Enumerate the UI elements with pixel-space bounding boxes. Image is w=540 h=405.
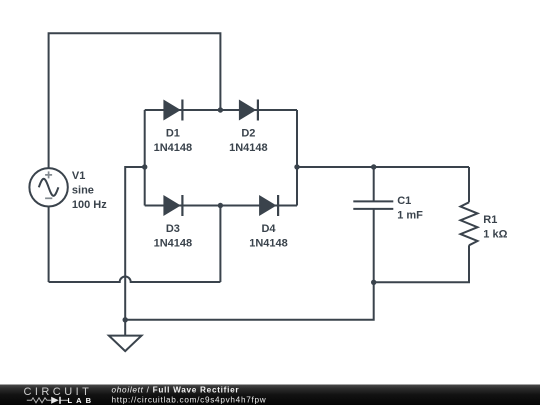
voltage source V1 — [29, 168, 67, 206]
svg-text:1N4148: 1N4148 — [154, 142, 193, 154]
wire bottom rail with hop over ground wire — [49, 277, 221, 283]
svg-text:C1: C1 — [397, 195, 411, 207]
wire V1 top to bridge top-mid — [49, 33, 221, 169]
svg-text:1N4148: 1N4148 — [229, 142, 268, 154]
svg-text:D1: D1 — [166, 128, 180, 140]
wire bridge mid-left to ground vertical — [125, 167, 145, 336]
node dot C1 top — [371, 164, 376, 169]
resistor R1 — [461, 202, 478, 245]
node dot bridge top-mid — [218, 107, 223, 112]
footer bar — [0, 385, 540, 405]
wire V1 bottom lead — [48, 206, 50, 282]
node dot ground junction — [123, 317, 128, 322]
node dot C1 bottom — [371, 280, 376, 285]
svg-text:1 mF: 1 mF — [397, 209, 423, 221]
diode D3 — [163, 195, 183, 216]
wire R1 top lead — [468, 167, 470, 202]
svg-text:LAB: LAB — [68, 396, 96, 405]
diode D2 — [239, 100, 259, 121]
svg-text:ohoilett / Full Wave Rectifier: ohoilett / Full Wave Rectifier — [112, 386, 240, 395]
svg-text:http://circuitlab.com/c9s4pvh4: http://circuitlab.com/c9s4pvh4h7fpw — [112, 396, 267, 405]
ground — [109, 336, 142, 352]
wire bridge top rail — [145, 109, 297, 111]
svg-text:1N4148: 1N4148 — [154, 237, 193, 249]
wire ground horizontal to C1 bottom — [125, 209, 374, 320]
wire R1 bottom lead and bottom rail to C1 — [374, 245, 469, 282]
svg-text:1 kΩ: 1 kΩ — [483, 228, 507, 240]
svg-text:R1: R1 — [483, 214, 497, 226]
wire bridge bottom-mid lead down — [219, 206, 221, 283]
svg-text:sine: sine — [72, 185, 94, 197]
node dot bridge bottom-mid — [218, 203, 223, 208]
svg-text:V1: V1 — [72, 170, 85, 182]
svg-text:1N4148: 1N4148 — [249, 237, 288, 249]
wire output top rail — [297, 166, 469, 168]
svg-text:D2: D2 — [241, 128, 255, 140]
footer logo schematic glyph — [27, 398, 69, 403]
diode D1 — [163, 100, 183, 121]
svg-text:100 Hz: 100 Hz — [72, 199, 107, 211]
V1 labels — [72, 170, 107, 211]
wire C1 top lead — [373, 167, 375, 201]
capacitor C1 — [353, 201, 393, 209]
wire bridge left vertical — [144, 110, 146, 206]
wire bridge right vertical — [296, 110, 298, 206]
node dot bridge mid-right — [294, 164, 299, 169]
node dot bridge mid-left — [142, 164, 147, 169]
svg-text:D3: D3 — [166, 223, 180, 235]
diode D4 — [259, 195, 279, 216]
wire bridge bottom rail — [145, 205, 297, 207]
svg-text:D4: D4 — [261, 223, 276, 235]
